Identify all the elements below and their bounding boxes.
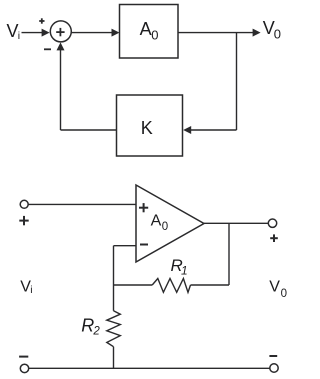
svg-text:0: 0 xyxy=(151,28,158,43)
terminal output top-right xyxy=(268,219,276,227)
minus marking inside op-amp xyxy=(140,244,148,246)
svg-text:A: A xyxy=(140,19,152,39)
wire feedback into K block (arrow) xyxy=(183,126,236,134)
wire K output to left xyxy=(61,129,117,131)
svg-text:0: 0 xyxy=(162,221,168,233)
wire inverting input of op-amp xyxy=(114,245,137,247)
summing junction S1 xyxy=(50,21,71,42)
resistor R2 zigzag xyxy=(107,311,121,347)
wire A0 to V0 output (arrow) xyxy=(178,29,261,37)
wire output branch down to feedback xyxy=(236,33,238,130)
wire R1 right lead xyxy=(191,284,230,286)
block A0 forward gain xyxy=(120,5,179,59)
svg-text:2: 2 xyxy=(92,325,100,337)
svg-text:A: A xyxy=(151,213,162,230)
svg-text:1: 1 xyxy=(181,264,188,278)
plus sign inside summing junction xyxy=(56,28,64,36)
svg-text:V: V xyxy=(269,279,280,296)
terminal bottom-left xyxy=(20,364,28,372)
minus sign bottom-left terminal xyxy=(19,356,28,358)
plus sign at input terminal xyxy=(19,216,28,225)
wire feedback up into summing junction (arrow) xyxy=(57,42,65,130)
resistor R1 zigzag xyxy=(152,279,190,293)
terminal bottom-right xyxy=(270,364,278,372)
wire op-amp output to terminal xyxy=(204,222,268,224)
op-amp U1 triangle xyxy=(136,185,204,262)
block K feedback network xyxy=(117,95,183,156)
wire R1 left lead to inverting node xyxy=(114,284,153,286)
minus sign at feedback input (external) xyxy=(44,48,51,50)
wire R2 bottom lead to rail xyxy=(113,347,115,369)
svg-text:0: 0 xyxy=(274,27,281,42)
terminal input top-left xyxy=(20,200,28,208)
plus sign at summing input (external) xyxy=(39,18,44,23)
svg-text:0: 0 xyxy=(281,288,287,300)
wire input terminal to op-amp noninverting input xyxy=(28,203,136,205)
wire summing junction to A0 block (arrow) xyxy=(71,29,119,37)
svg-text:K: K xyxy=(141,118,153,138)
wire inverting node vertical xyxy=(113,246,115,311)
plus marking inside op-amp xyxy=(139,203,148,212)
wire Vi input arrow into summing junction xyxy=(22,29,50,37)
svg-text:R: R xyxy=(81,316,94,336)
svg-text:i: i xyxy=(30,284,32,296)
wire output branch down to R1 xyxy=(228,223,230,285)
minus sign bottom-right terminal xyxy=(269,355,277,357)
wire bottom rail xyxy=(29,367,270,369)
plus sign at output terminal xyxy=(270,234,278,242)
svg-text:i: i xyxy=(18,30,20,42)
